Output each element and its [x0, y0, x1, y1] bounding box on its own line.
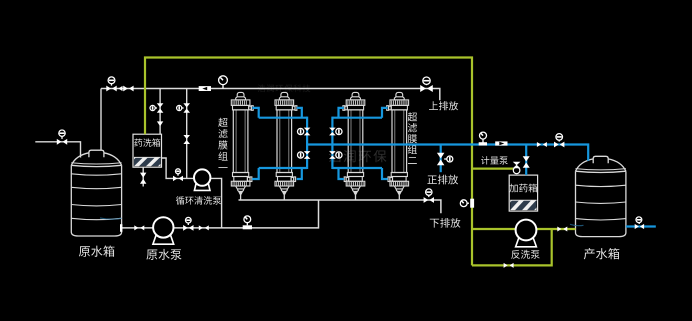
pipe blue: product tank outlet line	[626, 225, 656, 227]
label 计量泵	[481, 156, 508, 164]
label: 超滤膜组一 (vertical)	[218, 118, 227, 168]
pipe blue: group1 top ports to manifold	[252, 108, 307, 118]
flow arrow left on CIP header	[118, 86, 122, 91]
tank: product water tank 产水箱	[576, 156, 626, 236]
check valve after raw pump	[199, 225, 209, 230]
flow meter on CIP header	[199, 86, 211, 91]
nozzle: raw tank outlet flange	[120, 224, 122, 232]
pipe blue: dosing tank fill drop	[525, 145, 527, 176]
valve V4 on drop x=160 with gauge	[157, 103, 164, 112]
pipe: cleaning pump discharge down to feed line	[210, 178, 221, 228]
label 上排放	[429, 101, 458, 110]
label: 超滤膜组二 (vertical)	[408, 112, 417, 164]
pipe: top CIP return header y=88.5	[101, 89, 440, 101]
label 下排放	[430, 218, 461, 228]
valve V2 on CIP header with gauge	[106, 86, 116, 92]
pipe blue: group2 top ports to manifold	[332, 108, 387, 118]
label 正排放	[427, 175, 458, 185]
pipe: drop from header into raw tank at x=101	[100, 89, 102, 151]
UF module M4	[387, 92, 409, 200]
pump: circulation cleaning pump 循环清洗泵	[194, 169, 210, 190]
raw pump discharge valve with gauge	[183, 225, 193, 231]
pipe: chemical tank outlet to cleaning pump suction	[162, 158, 195, 178]
pipe blue: group2 valve riser x=332.4	[331, 117, 333, 169]
valve 正排放 with gauge	[437, 153, 445, 166]
flow meter on permeate line	[495, 141, 507, 145]
label 产水箱	[584, 248, 620, 259]
pipe blue: group1 bottom ports to manifold	[252, 168, 307, 179]
label 原水泵	[146, 249, 181, 260]
UF module M3	[343, 92, 365, 200]
check valve at raw tank outlet	[134, 225, 144, 230]
group1 lower concentrate valve with gauge	[304, 151, 311, 159]
pipe blue: group2 bottom ports to manifold	[332, 168, 387, 179]
flow arrow down on drop x=160	[157, 121, 163, 126]
pipe: raw water inlet line with elbow down to raw tank	[35, 142, 80, 158]
group1 upper concentrate valve with gauge	[304, 128, 311, 136]
water level hint arc product tank	[570, 224, 584, 225]
valve V3 on CIP header	[123, 86, 133, 92]
pipe: bottom feed line from raw tank to module riser	[122, 200, 319, 228]
pump: metering pump 计量泵	[513, 162, 520, 173]
watermark text 浩润环保 (faint)	[329, 150, 387, 162]
sensor fitting on backwash riser	[460, 199, 474, 208]
pressure gauge on permeate line x=483	[479, 132, 487, 145]
UF module M1	[231, 92, 253, 200]
box: dosing tank 加药箱	[485, 175, 584, 211]
pipe: chemical tank bottom drain	[142, 167, 144, 186]
label 反洗泵	[511, 250, 539, 259]
pipe green: backwash pump suction	[472, 228, 515, 230]
check valve on permeate line	[537, 142, 547, 147]
check valve backwash discharge	[557, 227, 567, 232]
pipe: module bottom manifold to lower drain elbow	[239, 200, 441, 213]
pressure gauge on CIP header x=223	[219, 76, 228, 89]
dosing drop valve	[523, 156, 530, 168]
valve V5 on drop x=186.7 with gauge	[183, 103, 190, 112]
pipe blue: permeate main line to product tank	[307, 145, 588, 161]
watermark text 浩润环保 top (faint)	[258, 84, 311, 92]
cleaning pump suction valve with gauge	[173, 176, 183, 181]
pipe green: bottom return to pump riser	[472, 229, 552, 265]
tank: raw water tank 原水箱	[71, 150, 121, 236]
group2 lower concentrate valve with gauge	[329, 151, 336, 159]
pipe blue: normal drain drop 正排放	[440, 145, 442, 173]
valve V6 lower on drop x=186.7	[183, 135, 190, 144]
valve 下排放 with gauge	[424, 197, 434, 203]
check valve backwash bottom return	[504, 263, 514, 268]
pipe: branch drop x=186.7 to cleaning pump suction	[186, 89, 188, 179]
group2 upper concentrate valve with gauge	[329, 128, 336, 136]
pump: backwash pump 反洗泵	[516, 220, 537, 247]
valve V7 upper drain 上排放 with gauge	[420, 85, 433, 92]
pipe green: metering pump supply branch	[472, 168, 513, 170]
UF module M2	[275, 92, 297, 200]
valve V1 raw inlet with gauge	[57, 139, 67, 145]
permeate isolation valve with gauge	[554, 142, 564, 148]
label 循环清洗泵	[176, 196, 221, 205]
pipe green: backwash pump discharge to product tank	[537, 228, 576, 230]
flow meter with gauge on feed line	[243, 216, 252, 229]
pipe blue: group1 valve riser x=307	[306, 117, 308, 169]
box: chemical wash tank 药洗箱	[109, 134, 208, 167]
water level hint arc raw tank	[100, 218, 122, 219]
pump: raw water pump 原水泵	[153, 217, 174, 244]
chemical tank drain valve	[140, 173, 146, 184]
label 原水箱	[79, 246, 115, 257]
pipe green: backwash loop from chemical tank top, across top, down right side	[145, 58, 472, 266]
product outlet valve with gauge	[635, 224, 644, 229]
pipe: branch drop x=160 to chemical wash tank	[159, 89, 161, 135]
